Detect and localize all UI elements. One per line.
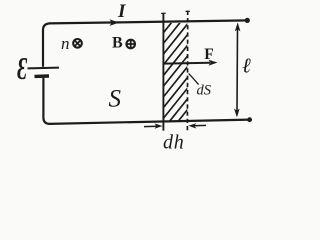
svg-text:ℓ: ℓ	[242, 54, 251, 78]
svg-text:S: S	[109, 86, 122, 113]
battery E: long thin plate	[28, 67, 60, 70]
symbol B into page (circle with cross)	[126, 40, 135, 49]
node top-right terminal dot	[245, 18, 250, 23]
tick serif above right edge	[186, 10, 191, 12]
dimension line l (vertical with arrows)	[236, 27, 239, 113]
wire bottom	[49, 120, 250, 124]
current arrow I on top wire	[110, 19, 120, 26]
strip right edge (dashed)	[186, 11, 188, 131]
dimension arrow right of dh	[193, 124, 206, 126]
rod left edge of strip (solid)	[162, 13, 164, 131]
svg-text:Ɛ: Ɛ	[17, 51, 27, 86]
leader line for dS	[189, 73, 199, 84]
symbol n into page (circle with X)	[73, 39, 82, 48]
hatched strip dS area	[162, 0, 188, 152]
tick serif above left edge	[161, 12, 166, 14]
svg-text:I: I	[117, 1, 126, 22]
wire left lower (battery to bottom corner)	[43, 78, 50, 124]
wire top	[49, 20, 249, 23]
svg-text:dh: dh	[163, 132, 185, 154]
force arrow F	[164, 62, 210, 65]
svg-text:n: n	[61, 34, 70, 53]
svg-text:F: F	[204, 46, 213, 63]
svg-text:dS: dS	[197, 83, 212, 99]
svg-text:B: B	[112, 35, 123, 52]
node bottom-right terminal dot	[247, 117, 252, 122]
dimension arrow left of dh	[144, 125, 158, 127]
battery E: short thick plate	[35, 74, 50, 78]
wire left (top-left corner and down to battery)	[43, 23, 50, 66]
